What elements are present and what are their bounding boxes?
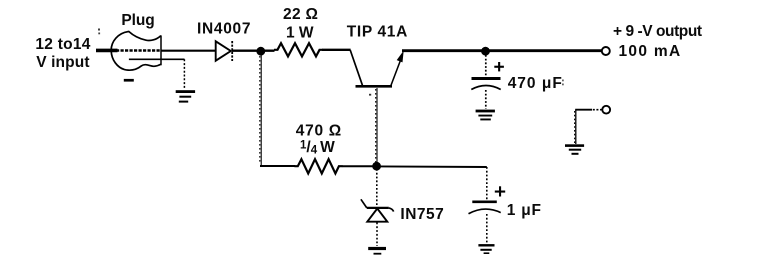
zener lower lead (dotted) [376, 223, 378, 247]
ground (terminal 2) [565, 144, 584, 155]
wire R1 to Q1 collector [322, 49, 351, 51]
node C junction dot (output cap) [481, 47, 490, 56]
stray dot below Q1 bar [369, 94, 371, 96]
capacitor C2 1 uF [469, 202, 501, 214]
label IN757 [400, 206, 444, 223]
wire plug to diode [161, 50, 216, 52]
svg-text:22 Ω: 22 Ω [283, 6, 318, 23]
wire Q1 emitter to output [402, 49, 602, 52]
node A junction dot [256, 47, 265, 56]
svg-text:1 μF: 1 μF [507, 202, 542, 219]
diode D1 IN4007 [216, 41, 233, 61]
wire terminal 2 to ground [575, 110, 602, 144]
plug P1 body [111, 32, 161, 71]
svg-text:+ 9 -V output: + 9 -V output [613, 23, 702, 40]
second terminal circle [602, 106, 610, 114]
resistor R1 22 ohm [274, 43, 323, 56]
wire lower branch left [260, 165, 295, 167]
ground (C1) [476, 110, 495, 121]
wire plug center pin (dotted) [116, 49, 161, 51]
svg-text:1 W: 1 W [286, 24, 314, 41]
svg-text:V input: V input [36, 54, 89, 71]
plus sign C2 [495, 186, 505, 196]
plus sign C1 [494, 62, 504, 71]
svg-text:100 mA: 100 mA [619, 43, 682, 60]
label TIP 41A [347, 23, 408, 40]
label 22 ohm 1 W [283, 6, 318, 42]
svg-text:Plug: Plug [121, 12, 154, 29]
resistor R2 470 ohm [294, 159, 342, 173]
ground (C2) [478, 244, 494, 254]
label 470 uF [508, 75, 563, 92]
capacitor C2 lower lead (dotted) [486, 214, 488, 243]
stray colon mark left [98, 29, 100, 35]
wire R2 to node B [343, 165, 377, 167]
svg-text:TIP 41A: TIP 41A [347, 23, 408, 40]
label IN4007 [197, 20, 251, 37]
capacitor C1 lower lead (dotted) [485, 90, 487, 109]
wire node B to C2 corner [380, 165, 487, 168]
zener diode D2 IN757 [361, 199, 394, 221]
wire input stub [96, 49, 118, 53]
ground (zener) [368, 247, 386, 255]
wire diode to node A [232, 50, 275, 52]
transistor Q1 emitter lead with arrow [391, 51, 404, 86]
stray colon mark right [562, 80, 564, 86]
label 1 uF [507, 202, 542, 219]
plug minus sign [124, 79, 134, 82]
ground (plug) [176, 90, 195, 102]
capacitor C2 lead (dotted) [486, 167, 488, 200]
svg-text:470 Ω: 470 Ω [296, 123, 342, 140]
node B junction dot [372, 162, 381, 171]
zener lead (dotted) [376, 169, 378, 205]
wire Q1 base down to node B [376, 88, 377, 163]
wire node A down to lower branch [260, 55, 261, 166]
wire plug sleeve [129, 59, 185, 89]
transistor Q1 TIP41A collector lead [350, 50, 362, 85]
label +9-V output 100 mA [613, 23, 702, 60]
svg-text:1/4W: 1/4W [300, 139, 335, 157]
svg-text:IN4007: IN4007 [197, 20, 251, 37]
svg-text:470 μF: 470 μF [508, 75, 563, 92]
capacitor C1 lead (dotted) [485, 55, 487, 77]
output terminal circle [602, 47, 610, 55]
transistor Q1 base bar [356, 85, 393, 88]
label Plug [121, 12, 154, 29]
svg-text:12 to14: 12 to14 [35, 36, 90, 53]
label: 12 to 14 V input [35, 36, 90, 71]
capacitor C1 470 uF [471, 79, 500, 90]
svg-text:IN757: IN757 [400, 206, 444, 223]
label 470 ohm 1/4 W [296, 123, 342, 157]
